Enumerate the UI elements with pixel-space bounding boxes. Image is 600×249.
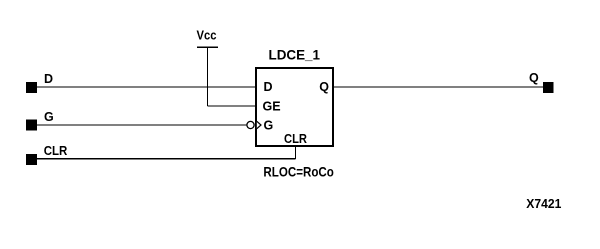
terminal D pad [26,82,37,93]
gate arrow on G [257,121,261,128]
wire G [37,124,247,126]
svg-text:CLR: CLR [284,132,307,146]
wire Vcc vertical [207,47,209,106]
inverter bubble on G [247,121,254,128]
wire D [37,86,256,88]
svg-text:D: D [264,80,273,94]
svg-text:X7421: X7421 [526,197,561,211]
svg-text:D: D [44,72,53,86]
wire CLR vertical [295,145,297,159]
wire Q [333,86,543,88]
terminal Q pad [543,82,554,93]
svg-text:G: G [264,118,274,132]
wire GE horizontal [208,105,257,107]
svg-text:Q: Q [529,71,539,85]
svg-text:RLOC=RoCo: RLOC=RoCo [263,164,334,180]
svg-text:G: G [44,110,54,124]
latch U1 LDCE_1 body [256,68,333,146]
svg-text:GE: GE [263,99,281,113]
svg-text:Vcc: Vcc [197,29,217,43]
svg-text:CLR: CLR [44,144,68,158]
power Vcc bar [197,46,218,48]
terminal CLR pad [26,154,37,165]
wire CLR horizontal [37,158,296,160]
svg-text:LDCE_1: LDCE_1 [269,47,321,63]
svg-text:Q: Q [319,80,329,94]
terminal G pad [26,120,37,131]
